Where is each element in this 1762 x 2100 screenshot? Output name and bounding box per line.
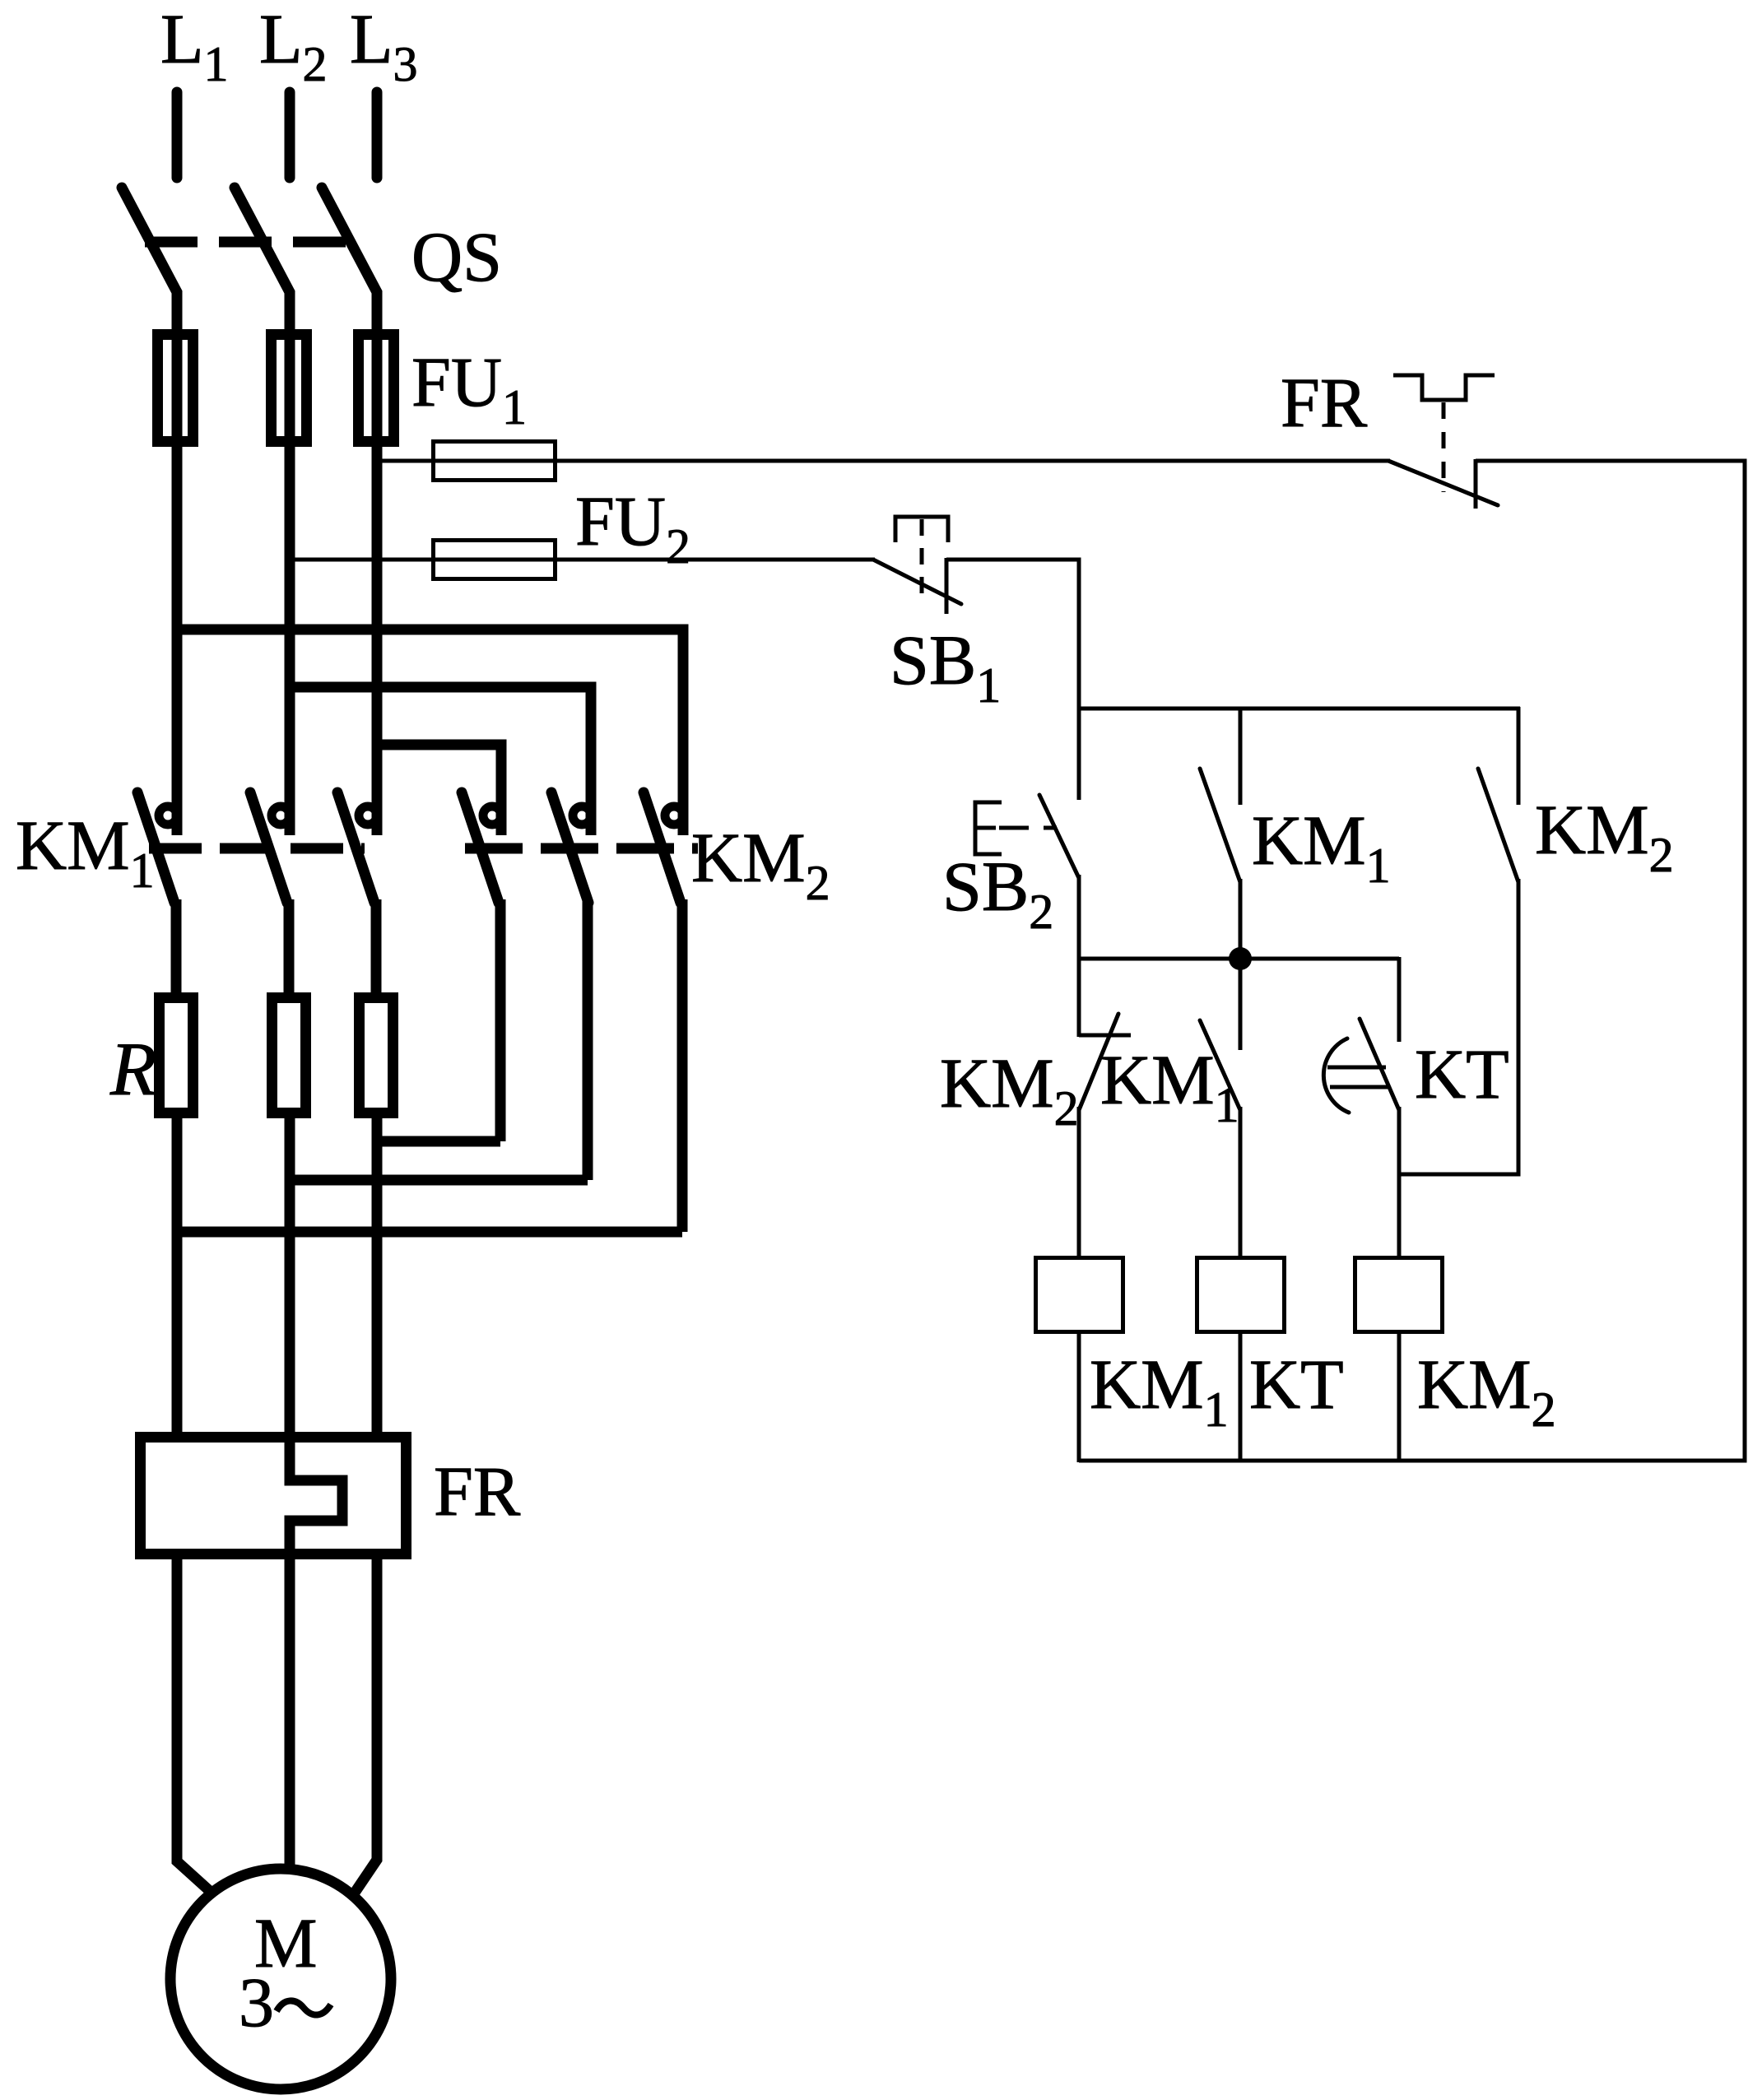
thermal relay FR contact blade — [1388, 461, 1498, 505]
contactor KM2 main contact 3 fixed hook — [665, 806, 683, 825]
wire SB2 to KM2 NC contact — [1077, 875, 1081, 1037]
pushbutton SB1 fixed tick — [945, 558, 949, 614]
wire phase 3 (FR to motor) — [355, 1554, 377, 1893]
wire bottom bus — [1079, 1459, 1747, 1463]
pushbutton SB1 blade — [873, 560, 961, 604]
timer KT delay arc chord 2 — [1330, 1085, 1388, 1089]
thermal relay FR contact fixed tick — [1474, 459, 1478, 509]
wire KT branch to KM2 aux branch — [1399, 1173, 1518, 1177]
wire phase 1 (FR to motor) — [177, 1554, 211, 1892]
wire KM2 contact 2 down — [583, 899, 593, 1180]
wire junction line D — [1079, 957, 1399, 961]
timer KT delay arc chord 1 — [1327, 1066, 1386, 1070]
wire control line A (phase3 tap to FR contact) — [377, 459, 1390, 463]
wire phase 2 vertical (fuse to KM1 contact) — [285, 328, 295, 835]
wire phase 1 vertical (fuse to KM1 contact) — [172, 328, 183, 835]
svg-text:FR: FR — [434, 1452, 521, 1531]
contactor KM1 aux NO branch wire — [1239, 707, 1243, 805]
switch QS mechanical link (dashed) — [145, 237, 352, 248]
wire control line B (phase2 tap to SB1) — [290, 558, 875, 562]
svg-text:3: 3 — [239, 1963, 274, 2042]
svg-text:FR: FR — [1281, 363, 1368, 442]
motor M circle — [170, 1869, 391, 2089]
pushbutton SB2 actuator dashed link — [999, 826, 1057, 830]
contactor KM1 aux NO blade — [1200, 769, 1240, 882]
wire crossbar phase3 to KM2 pole1 — [377, 745, 501, 835]
wire control line A (FR contact to right rail) — [1476, 459, 1747, 463]
pushbutton SB2 actuator — [975, 802, 1002, 854]
svg-text:QS: QS — [411, 217, 502, 296]
wire KM1 contact 2 to resistor R — [284, 899, 295, 997]
wire L1 lead-in — [172, 92, 183, 178]
wire phase 2 with FR heater jog — [290, 1113, 342, 1870]
coil KM2 body — [1355, 1258, 1443, 1332]
wire KM2 return crossbar to phase 3 — [377, 1136, 500, 1147]
contactor KM2 main contact 1 blade — [462, 792, 499, 903]
wire crossbar phase2 to KM2 pole2 — [290, 687, 591, 835]
switch QS pole 1 blade — [122, 188, 177, 332]
resistor R phase 2 body — [272, 998, 306, 1113]
wire coil KT to bottom bus — [1239, 1331, 1243, 1462]
wire right rail — [1743, 459, 1747, 1461]
fuse FU1 control body — [434, 442, 556, 481]
contactor KM1 main contact 1 blade — [137, 792, 174, 903]
wire bus C — [1077, 707, 1520, 711]
contactor KM1 aux NO 2 blade — [1200, 1020, 1240, 1110]
resistor R phase 1 body — [160, 998, 193, 1113]
wire phase 1 (R to FR) — [172, 1113, 183, 1437]
wire KM1 aux to junction — [1239, 879, 1243, 1050]
contactor KM2 aux NO branch wire — [1517, 707, 1521, 805]
fuse FU1 pole 3 body — [359, 335, 394, 442]
wire KM1 aux 2 to coil KT — [1239, 1107, 1243, 1258]
switch QS pole 2 blade — [235, 188, 290, 332]
junction dot — [1229, 947, 1252, 970]
wire KM2 aux down to KT line — [1517, 879, 1521, 1177]
wire KM2 return crossbar to phase 1 — [177, 1227, 682, 1238]
pushbutton SB1 actuator dashed link — [920, 519, 924, 600]
resistor R phase 3 body — [360, 998, 393, 1113]
wire KM2 contact 1 down — [495, 899, 506, 1141]
contactor KM2 main contacts link (dashed) — [465, 843, 698, 854]
wire SB1 to corner — [946, 560, 1079, 709]
contactor KM2 NC interlock blade — [1079, 1014, 1118, 1110]
wire KT contact to coil KM2 — [1397, 1107, 1402, 1258]
pushbutton SB2 branch wire — [1077, 707, 1081, 800]
wire KM1 contact 3 to resistor R — [371, 899, 382, 997]
contactor KM2 main contact 2 blade — [551, 792, 588, 903]
fuse FU1 pole 1 body — [158, 335, 193, 442]
contactor KM1 main contacts link (dashed) — [149, 843, 365, 854]
thermal relay FR actuator dashed link — [1442, 402, 1446, 492]
contactor KM1 main contact 1 fixed hook — [159, 806, 177, 825]
contactor KM1 main contact 3 blade — [337, 792, 374, 903]
wire KM2 return crossbar to phase 2 — [290, 1175, 588, 1186]
contactor KM1 main contact 2 fixed hook — [272, 806, 290, 825]
pushbutton SB2 blade — [1039, 795, 1079, 878]
svg-text:R: R — [109, 1027, 156, 1111]
wire junction D to KT contact — [1397, 957, 1402, 1042]
wire phase 3 vertical (fuse to KM1 contact) — [372, 328, 383, 835]
thermal relay FR contact actuator — [1393, 375, 1495, 400]
wire L3 lead-in — [372, 92, 383, 178]
coil KT body — [1197, 1258, 1285, 1332]
wire coil KM1 to bottom bus — [1077, 1331, 1081, 1462]
contactor KM2 main contact 3 blade — [644, 792, 681, 903]
coil KM1 body — [1036, 1258, 1123, 1332]
switch QS pole 3 blade — [322, 188, 377, 332]
wire KM1 contact 1 to resistor R — [171, 899, 182, 997]
timer KT delay arc — [1323, 1038, 1349, 1113]
wire coil KM2 to bottom bus — [1397, 1331, 1402, 1462]
contactor KM2 main contact 2 fixed hook — [573, 806, 591, 825]
svg-text:KT: KT — [1249, 1345, 1344, 1424]
timer KT delayed contact blade — [1360, 1019, 1399, 1110]
contactor KM2 main contact 1 fixed hook — [483, 806, 501, 825]
thermal relay FR heater box — [141, 1438, 407, 1554]
motor 3-phase tilde — [277, 2000, 331, 2014]
wire KM2 NC to coil KM1 — [1077, 1107, 1081, 1258]
wire L2 lead-in — [285, 92, 295, 178]
fuse FU1 pole 2 body — [272, 335, 307, 442]
wire KM2 contact 3 down — [677, 899, 688, 1232]
contactor KM2 NC interlock fixed bar — [1079, 1034, 1131, 1038]
contactor KM2 aux NO blade — [1478, 769, 1518, 882]
wire crossbar phase1 to KM2 pole3 — [177, 630, 683, 835]
fuse FU2 control body — [434, 541, 556, 579]
pushbutton SB1 actuator — [895, 517, 948, 542]
wire phase 3 (R to FR) — [372, 1113, 383, 1437]
contactor KM1 main contact 3 fixed hook — [359, 806, 377, 825]
contactor KM1 main contact 2 blade — [250, 792, 287, 903]
svg-text:KT: KT — [1415, 1034, 1509, 1113]
